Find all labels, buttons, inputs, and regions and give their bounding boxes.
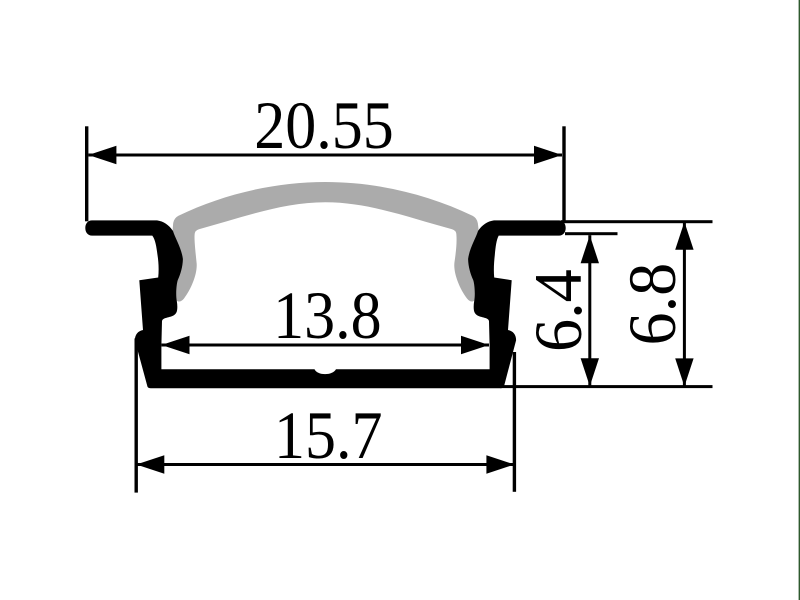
dimension 13.8 line — [162, 344, 490, 347]
svg-text:6.8: 6.8 — [614, 263, 690, 346]
dimension 15.7 right extension line — [513, 352, 516, 492]
dimension 6.4 bottom arrowhead — [581, 358, 599, 386]
dimension 15.7 line — [136, 463, 514, 466]
shared bottom extension line — [500, 385, 713, 388]
aluminum profile body (black cross-section) — [85, 220, 565, 388]
svg-text:15.7: 15.7 — [274, 398, 382, 473]
dimension 6.8 line — [683, 222, 686, 387]
dimension 20.55 right extension line — [562, 126, 565, 222]
svg-text:20.55: 20.55 — [254, 88, 393, 163]
diffuser cover (gray dome) — [172, 182, 479, 302]
dimension 20.55 line — [88, 154, 562, 157]
dimension 15.7 right arrowhead — [486, 455, 514, 473]
dimension 20.55 left extension line — [85, 126, 88, 221]
dimension 6.4 top arrowhead — [581, 235, 599, 263]
dimension 13.8 left arrowhead — [162, 336, 190, 354]
svg-text:6.4: 6.4 — [520, 269, 596, 352]
dimension 6.4 top extension line — [565, 232, 618, 235]
dimension 6.8 top extension line — [561, 220, 713, 223]
dimension 13.8 right arrowhead — [461, 336, 489, 354]
svg-text:13.8: 13.8 — [273, 278, 381, 353]
dimension 6.8 top arrowhead — [675, 222, 693, 250]
dimension 15.7 left extension line — [135, 338, 138, 492]
dimension 20.55 right arrowhead — [534, 146, 562, 164]
green border line at right edge — [799, 0, 800, 600]
dimension 15.7 left arrowhead — [136, 455, 164, 473]
dimension 20.55 left arrowhead — [88, 146, 116, 164]
dimension 6.4 line — [588, 235, 591, 386]
dimension 6.8 bottom arrowhead — [675, 358, 693, 386]
